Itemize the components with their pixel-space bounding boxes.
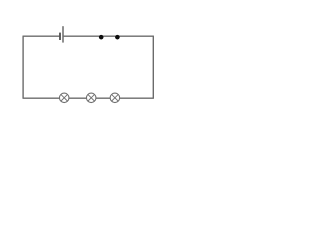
wire: left vertical side	[22, 36, 24, 98]
wire: top-left segment (left corner to battery)	[23, 35, 60, 37]
wire: right vertical side	[152, 36, 154, 98]
wire: top-right segment (switch node B to right corner)	[117, 35, 153, 37]
switch terminal node B (dot)	[115, 35, 120, 40]
wire: top segment (battery to switch node A)	[64, 35, 101, 37]
lamp L1 (circle with cross)	[59, 93, 69, 103]
wire: segment between switch terminals	[101, 35, 117, 37]
lamp L2 (circle with cross)	[86, 93, 96, 103]
wire: bottom side (runs behind lamps)	[23, 97, 154, 99]
switch terminal node A (dot)	[99, 35, 104, 40]
lamp L3 (circle with cross)	[110, 93, 120, 103]
battery cell B1 negative plate (short thick line)	[59, 33, 61, 40]
battery cell B1 positive plate (long thin line)	[62, 26, 64, 42]
